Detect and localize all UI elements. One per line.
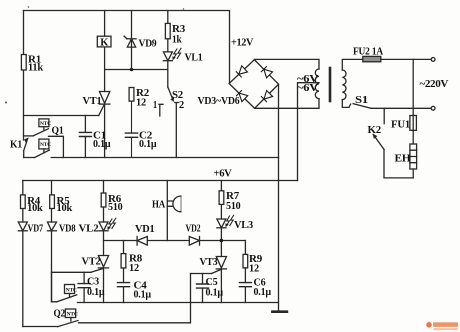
svg-text:11k: 11k (28, 63, 43, 74)
svg-text:12: 12 (249, 264, 259, 275)
svg-text:FU2 1A: FU2 1A (353, 47, 384, 58)
resistor R6 (101, 181, 106, 223)
svg-text:S1: S1 (355, 95, 368, 106)
wire Q2 return line (23, 274, 191, 327)
relay contact K2 (373, 108, 413, 178)
svg-text:NTC: NTC (67, 312, 78, 318)
capacitor C4 (118, 283, 130, 303)
svg-text:VD3~VD6: VD3~VD6 (198, 96, 240, 107)
diode VD6 (261, 91, 273, 103)
wire +6V rail (23, 180, 298, 182)
specks (5, 6, 184, 103)
svg-text:~220V: ~220V (420, 78, 449, 90)
svg-text:~6V: ~6V (297, 83, 319, 94)
resistor R2 (129, 88, 134, 102)
diode VD7 (18, 222, 27, 327)
switch S1 (349, 104, 431, 109)
node junction dot (130, 68, 134, 72)
svg-text:HA: HA (152, 200, 166, 211)
diode VD4 (236, 90, 248, 102)
svg-text:0.1µ: 0.1µ (206, 288, 224, 299)
svg-text:+12V: +12V (231, 36, 253, 48)
wire node row y69 (105, 69, 168, 71)
thyristor VT3 (212, 257, 227, 303)
svg-text:C5: C5 (206, 277, 218, 288)
svg-text:2: 2 (179, 100, 184, 111)
diode VD8 (48, 222, 57, 302)
wire bridge to transformer top (254, 59, 319, 69)
wire left rail (23, 11, 25, 141)
wire bridge to transformer bottom (255, 99, 319, 109)
resistor R3 (165, 11, 170, 52)
thermal switch near C3 (52, 272, 77, 302)
svg-text:1: 1 (153, 100, 157, 111)
svg-text:K1: K1 (10, 140, 22, 151)
thermal switch lower box (35, 139, 50, 157)
svg-text:NTC: NTC (66, 288, 77, 294)
wire bridge minus vertical (278, 84, 280, 312)
bridge rectifier VD3~VD6 (229, 60, 278, 109)
diode VD9 (124, 11, 136, 70)
wire VL3 to node (220, 228, 222, 257)
svg-text:NTC: NTC (40, 121, 51, 127)
thyristor VT2 (91, 256, 109, 303)
terminal upper 220V (431, 58, 435, 62)
transformer T primary winding (342, 59, 363, 107)
resistor R1 (21, 55, 26, 71)
wire bottom rail top-circuit (24, 157, 279, 159)
svg-text:VD1: VD1 (135, 224, 155, 235)
svg-text:0.1µ: 0.1µ (254, 287, 272, 298)
svg-text:10k: 10k (27, 203, 43, 214)
svg-text:VT3: VT3 (200, 257, 218, 268)
svg-text:12: 12 (136, 98, 146, 109)
svg-text:FU1: FU1 (391, 120, 410, 131)
svg-text:510: 510 (226, 201, 241, 212)
svg-text:0.1µ: 0.1µ (93, 139, 111, 150)
switch S2 (159, 87, 179, 158)
fuse FU2 (363, 56, 432, 61)
svg-text:10k: 10k (57, 203, 73, 214)
wire top rail +12V (24, 11, 230, 84)
wire VT2 gate row (52, 271, 91, 273)
svg-text:VD2: VD2 (186, 224, 201, 235)
svg-text:K: K (100, 37, 109, 49)
thyristor VT1 (99, 92, 110, 158)
svg-text:12: 12 (129, 263, 139, 274)
thermal switch Q2 (58, 309, 79, 327)
transformer core (329, 68, 332, 101)
resistor R5 (50, 181, 55, 223)
svg-text:VD7: VD7 (28, 224, 44, 235)
capacitor C2 (125, 101, 137, 157)
capacitor C5 (197, 274, 209, 303)
bridge diodes VD3-VD6 symbols (236, 66, 273, 102)
wire diode row y240 (104, 240, 246, 242)
svg-text:0.1µ: 0.1µ (87, 287, 105, 298)
ground (272, 310, 287, 313)
resistor R4 (21, 181, 26, 223)
svg-text:510: 510 (108, 202, 123, 213)
svg-text:C3: C3 (87, 277, 99, 288)
svg-text:K2: K2 (368, 125, 382, 136)
diode VD5 (261, 66, 273, 78)
capacitor C3 (78, 272, 90, 302)
svg-text:VT1: VT1 (83, 96, 102, 107)
svg-text:VT2: VT2 (82, 257, 101, 268)
resistor R7 (219, 181, 224, 220)
svg-text:VD8: VD8 (59, 224, 76, 235)
switch K1 (24, 138, 28, 157)
LED VL2 (99, 218, 116, 231)
LED VL1 (163, 48, 181, 61)
svg-text:VL2: VL2 (79, 224, 99, 235)
node gate line VT1 (24, 115, 99, 117)
svg-text:Q2: Q2 (54, 309, 66, 320)
svg-text:VL1: VL1 (185, 53, 203, 64)
svg-text:0.1µ: 0.1µ (134, 290, 152, 301)
svg-text:VD9: VD9 (139, 39, 157, 50)
wire VL2 to VT2 (103, 231, 105, 256)
svg-text:Q1: Q1 (52, 126, 64, 137)
LED VL3 (217, 215, 234, 228)
relay coil K (97, 36, 111, 47)
svg-text:NTC: NTC (40, 142, 51, 148)
terminal lower 220V (431, 106, 435, 110)
capacitor C1 (79, 116, 91, 158)
diode VD3 (236, 66, 248, 78)
svg-text:0.1µ: 0.1µ (139, 139, 157, 150)
svg-text:+6V: +6V (214, 168, 232, 180)
svg-text:R3: R3 (172, 24, 185, 35)
wire center tap (298, 83, 320, 181)
fuse FU1 (410, 59, 417, 144)
resistor R8 (121, 241, 126, 283)
svg-text:EH: EH (395, 154, 411, 165)
diode VD1 (137, 237, 147, 246)
capacitor C6 (239, 283, 251, 303)
wire bottom rail lower circuit (78, 302, 279, 304)
wire VL1 to S2 (167, 61, 169, 87)
wire Q1 branch (24, 135, 34, 137)
node dot VT3 anode (220, 239, 224, 243)
watermark (426, 322, 458, 330)
wire VT3 gate row (191, 273, 212, 275)
svg-text:1k: 1k (172, 35, 182, 46)
transformer T secondary winding (315, 69, 319, 99)
resistor R9 (243, 241, 248, 283)
svg-text:VL3: VL3 (234, 220, 253, 231)
diode VD2 (189, 237, 199, 246)
buzzer HA (167, 181, 180, 241)
wire K/VT1 vertical (104, 11, 106, 92)
thermal switch Q1 (33, 119, 63, 158)
heater EH (410, 144, 417, 178)
